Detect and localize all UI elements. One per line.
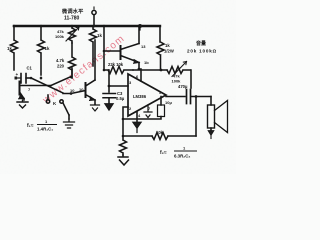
ground switch (64, 119, 75, 128)
ground op-amp pin4 (136, 112, 138, 122)
wire op-amp +input (109, 85, 128, 87)
wire Q2 base (63, 91, 86, 94)
wire op-amp -input (123, 107, 128, 136)
resistor R3 (69, 43, 76, 78)
ground Q1 emitter (17, 100, 28, 108)
resistor R2 1k (38, 26, 45, 75)
ground C3 solid (105, 104, 114, 111)
switch K (47, 95, 49, 100)
resistor R6 1k 1/2W (157, 26, 164, 70)
svg-text:10µ: 10µ (165, 100, 172, 105)
terminal +V (93, 16, 95, 27)
wire output (166, 96, 185, 98)
svg-text:1k: 1k (165, 43, 170, 48)
svg-text:1.4R₁C₁: 1.4R₁C₁ (37, 127, 53, 132)
capacitor C3 input (108, 70, 110, 86)
wire bias column (103, 26, 105, 70)
svg-text:10k: 10k (156, 130, 164, 135)
transistor Q3 (120, 46, 122, 59)
ground op-amp pin2b (144, 105, 152, 118)
svg-text:微调水平: 微调水平 (61, 7, 84, 15)
capacitor C1 (16, 77, 20, 79)
svg-text:220: 220 (57, 64, 65, 69)
svg-text:f₂≈: f₂≈ (160, 150, 167, 156)
wire cross coupling (31, 78, 63, 93)
svg-text:1b: 1b (144, 60, 149, 65)
capacitor C5 output (187, 90, 191, 104)
resistor R5 22k (104, 67, 133, 74)
svg-text:10: 10 (70, 88, 75, 93)
paper background (0, 0, 236, 174)
svg-text:音量: 音量 (196, 40, 206, 47)
svg-text:6.3R₂C₂: 6.3R₂C₂ (174, 154, 190, 159)
resistor R8 (120, 136, 127, 155)
speaker BL (208, 105, 215, 128)
svg-text:1k: 1k (97, 33, 102, 38)
watermark www.elecfans.com (0, 0, 236, 174)
node bus junctions (13, 24, 142, 28)
svg-text:1k: 1k (7, 46, 12, 51)
svg-text:100k: 100k (172, 78, 182, 83)
potentiometer RP2 volume (167, 67, 190, 74)
potentiometer RP1 47k (69, 26, 76, 43)
svg-text:4.7k: 4.7k (56, 58, 65, 63)
svg-text:LM386: LM386 (133, 94, 147, 99)
svg-text:100k: 100k (55, 34, 65, 39)
ground Q2 emitter (91, 104, 100, 111)
svg-text:1/2W: 1/2W (164, 49, 174, 54)
svg-text:f₁≈: f₁≈ (27, 123, 34, 129)
wire feedback bottom (123, 135, 196, 137)
resistor R4 1k (90, 26, 97, 66)
wire speaker drop (210, 97, 212, 106)
resistor R7 10k (152, 133, 168, 140)
svg-text:+: + (16, 72, 19, 77)
svg-text:20k 100kΩ: 20k 100kΩ (187, 49, 217, 54)
capacitor C4 gain rect (158, 105, 165, 117)
ground speaker (210, 128, 212, 130)
wire feedback right leg (195, 97, 197, 137)
svg-text:11-780: 11-780 (64, 16, 80, 22)
svg-text:0.5µ: 0.5µ (116, 96, 125, 101)
svg-text:470µ: 470µ (178, 84, 188, 89)
wire stub under node (139, 26, 141, 30)
ground R8 (118, 155, 129, 165)
wire volume line (133, 69, 167, 71)
svg-text:C1: C1 (27, 66, 33, 71)
wire top supply bus (14, 25, 160, 27)
svg-text:13: 13 (141, 44, 146, 49)
svg-text:22k 10k: 22k 10k (108, 62, 124, 67)
wire Q3 base (104, 50, 119, 52)
op-amp U1 LM386 (128, 74, 166, 116)
transistor Q2 (85, 83, 87, 97)
svg-text:10: 10 (79, 87, 84, 92)
svg-text:1k: 1k (45, 46, 50, 51)
transistor Q1 (19, 82, 21, 95)
wire pin6 supply (140, 69, 142, 81)
resistor R1 1k (11, 26, 18, 70)
wire gain network (123, 117, 161, 120)
